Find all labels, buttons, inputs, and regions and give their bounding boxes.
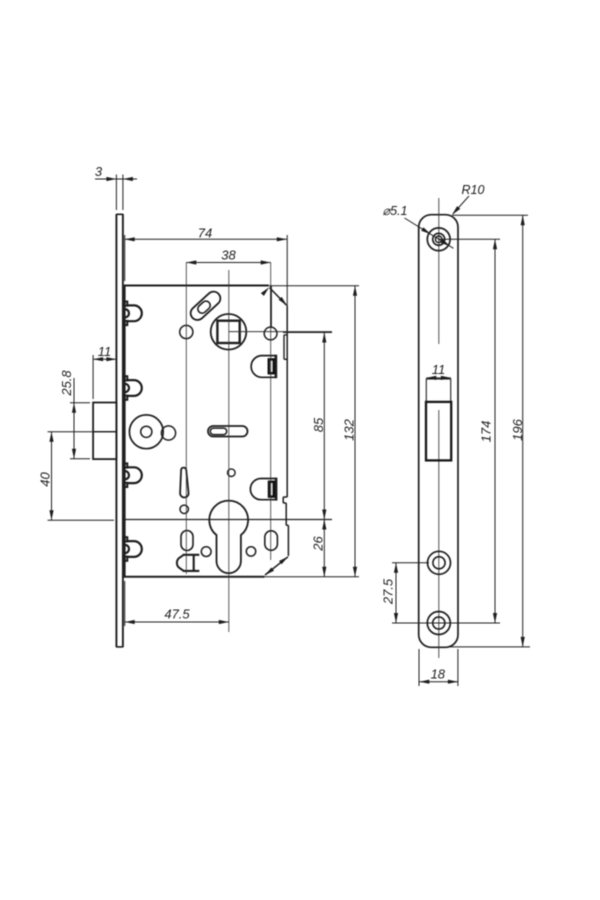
latch opening lower thick	[426, 402, 451, 461]
bottom-right corner chamfer arrow	[265, 557, 288, 576]
svg-text:11: 11	[432, 362, 446, 377]
svg-text:3: 3	[95, 164, 103, 179]
upper D latch guide with dark insert	[251, 355, 276, 379]
leader R10	[452, 183, 485, 215]
middle horizontal stadium lever	[208, 426, 248, 437]
svg-text:25.8: 25.8	[59, 370, 74, 397]
spring clip bottom left	[177, 555, 199, 571]
dim 47.5	[125, 581, 229, 626]
mounting lug 4	[125, 537, 142, 561]
dim 11 latch bolt	[93, 344, 116, 399]
dim 3 faceplate thickness	[95, 164, 137, 210]
svg-text:132: 132	[342, 418, 357, 440]
svg-text:74: 74	[198, 226, 212, 241]
svg-text:11: 11	[98, 344, 112, 359]
svg-text:38: 38	[221, 248, 236, 263]
svg-text:⌀5.1: ⌀5.1	[383, 204, 408, 218]
dim 25.8	[59, 370, 90, 459]
mounting lug 2	[125, 376, 142, 400]
dim 132	[265, 286, 360, 577]
svg-text:18: 18	[431, 667, 446, 682]
right oblong hole	[265, 531, 278, 551]
dim 196	[448, 215, 530, 647]
svg-text:174: 174	[479, 421, 494, 443]
dim 38	[186, 248, 270, 265]
right edge bracket notch	[284, 335, 287, 359]
faceplate side view bar	[116, 214, 123, 647]
small circle right of hub	[264, 327, 277, 340]
svg-text:85: 85	[311, 417, 326, 432]
left oblong hole	[181, 531, 193, 551]
cylinder axis horizontal line	[125, 519, 332, 521]
slim teardrop spring	[180, 468, 189, 498]
spindle horizontal centerline	[229, 331, 332, 333]
dim 26	[311, 520, 327, 577]
dim 40	[38, 432, 117, 521]
top-right corner chamfer arrow	[261, 287, 287, 305]
lock body outline	[123, 286, 288, 577]
rosette small circle	[161, 426, 175, 440]
dim 174	[392, 239, 500, 623]
leader dia 5.1	[383, 204, 454, 248]
dim 74	[125, 226, 288, 307]
internal vertical edge line x=271	[270, 286, 272, 328]
spindle square hole	[217, 321, 239, 343]
small circle left of hub	[180, 325, 193, 338]
bottom screw hole 1	[428, 551, 451, 574]
latch bolt (left, through faceplate)	[93, 403, 116, 460]
rosette big circle	[129, 415, 163, 449]
faceplate front outline	[419, 215, 458, 648]
slanted stadium slot top	[188, 289, 223, 323]
small circle mid	[228, 469, 236, 477]
vertical centerline main x=228.8	[228, 270, 230, 632]
faceplate vertical centerline	[438, 198, 440, 658]
mounting lug 3	[125, 463, 142, 487]
small circle bottom right	[246, 547, 255, 556]
dim 11 latch slot	[426, 362, 451, 380]
svg-text:196: 196	[510, 418, 525, 440]
svg-text:47.5: 47.5	[164, 607, 190, 622]
mounting lug 1	[125, 302, 142, 326]
small circle bottom left	[201, 547, 211, 557]
small circle below teardrop	[180, 505, 188, 513]
svg-text:26: 26	[311, 536, 326, 552]
svg-text:R10: R10	[462, 183, 485, 197]
vertical line x=186.3 (38 extension)	[185, 263, 187, 575]
euro cylinder profile	[209, 501, 248, 574]
svg-text:40: 40	[38, 472, 53, 487]
svg-text:27.5: 27.5	[381, 578, 396, 605]
lower D latch guide with dark insert	[250, 478, 276, 501]
spindle hub circle	[211, 314, 247, 350]
bottom screw hole 2	[427, 612, 450, 635]
latch opening upper thin	[426, 379, 450, 402]
dim 18	[419, 649, 458, 686]
top screw hole countersunk	[427, 228, 450, 251]
vertical line x=270.7 (38 extension/centerline)	[270, 263, 272, 561]
dim 27.5	[381, 563, 430, 623]
dim 85	[283, 333, 332, 520]
